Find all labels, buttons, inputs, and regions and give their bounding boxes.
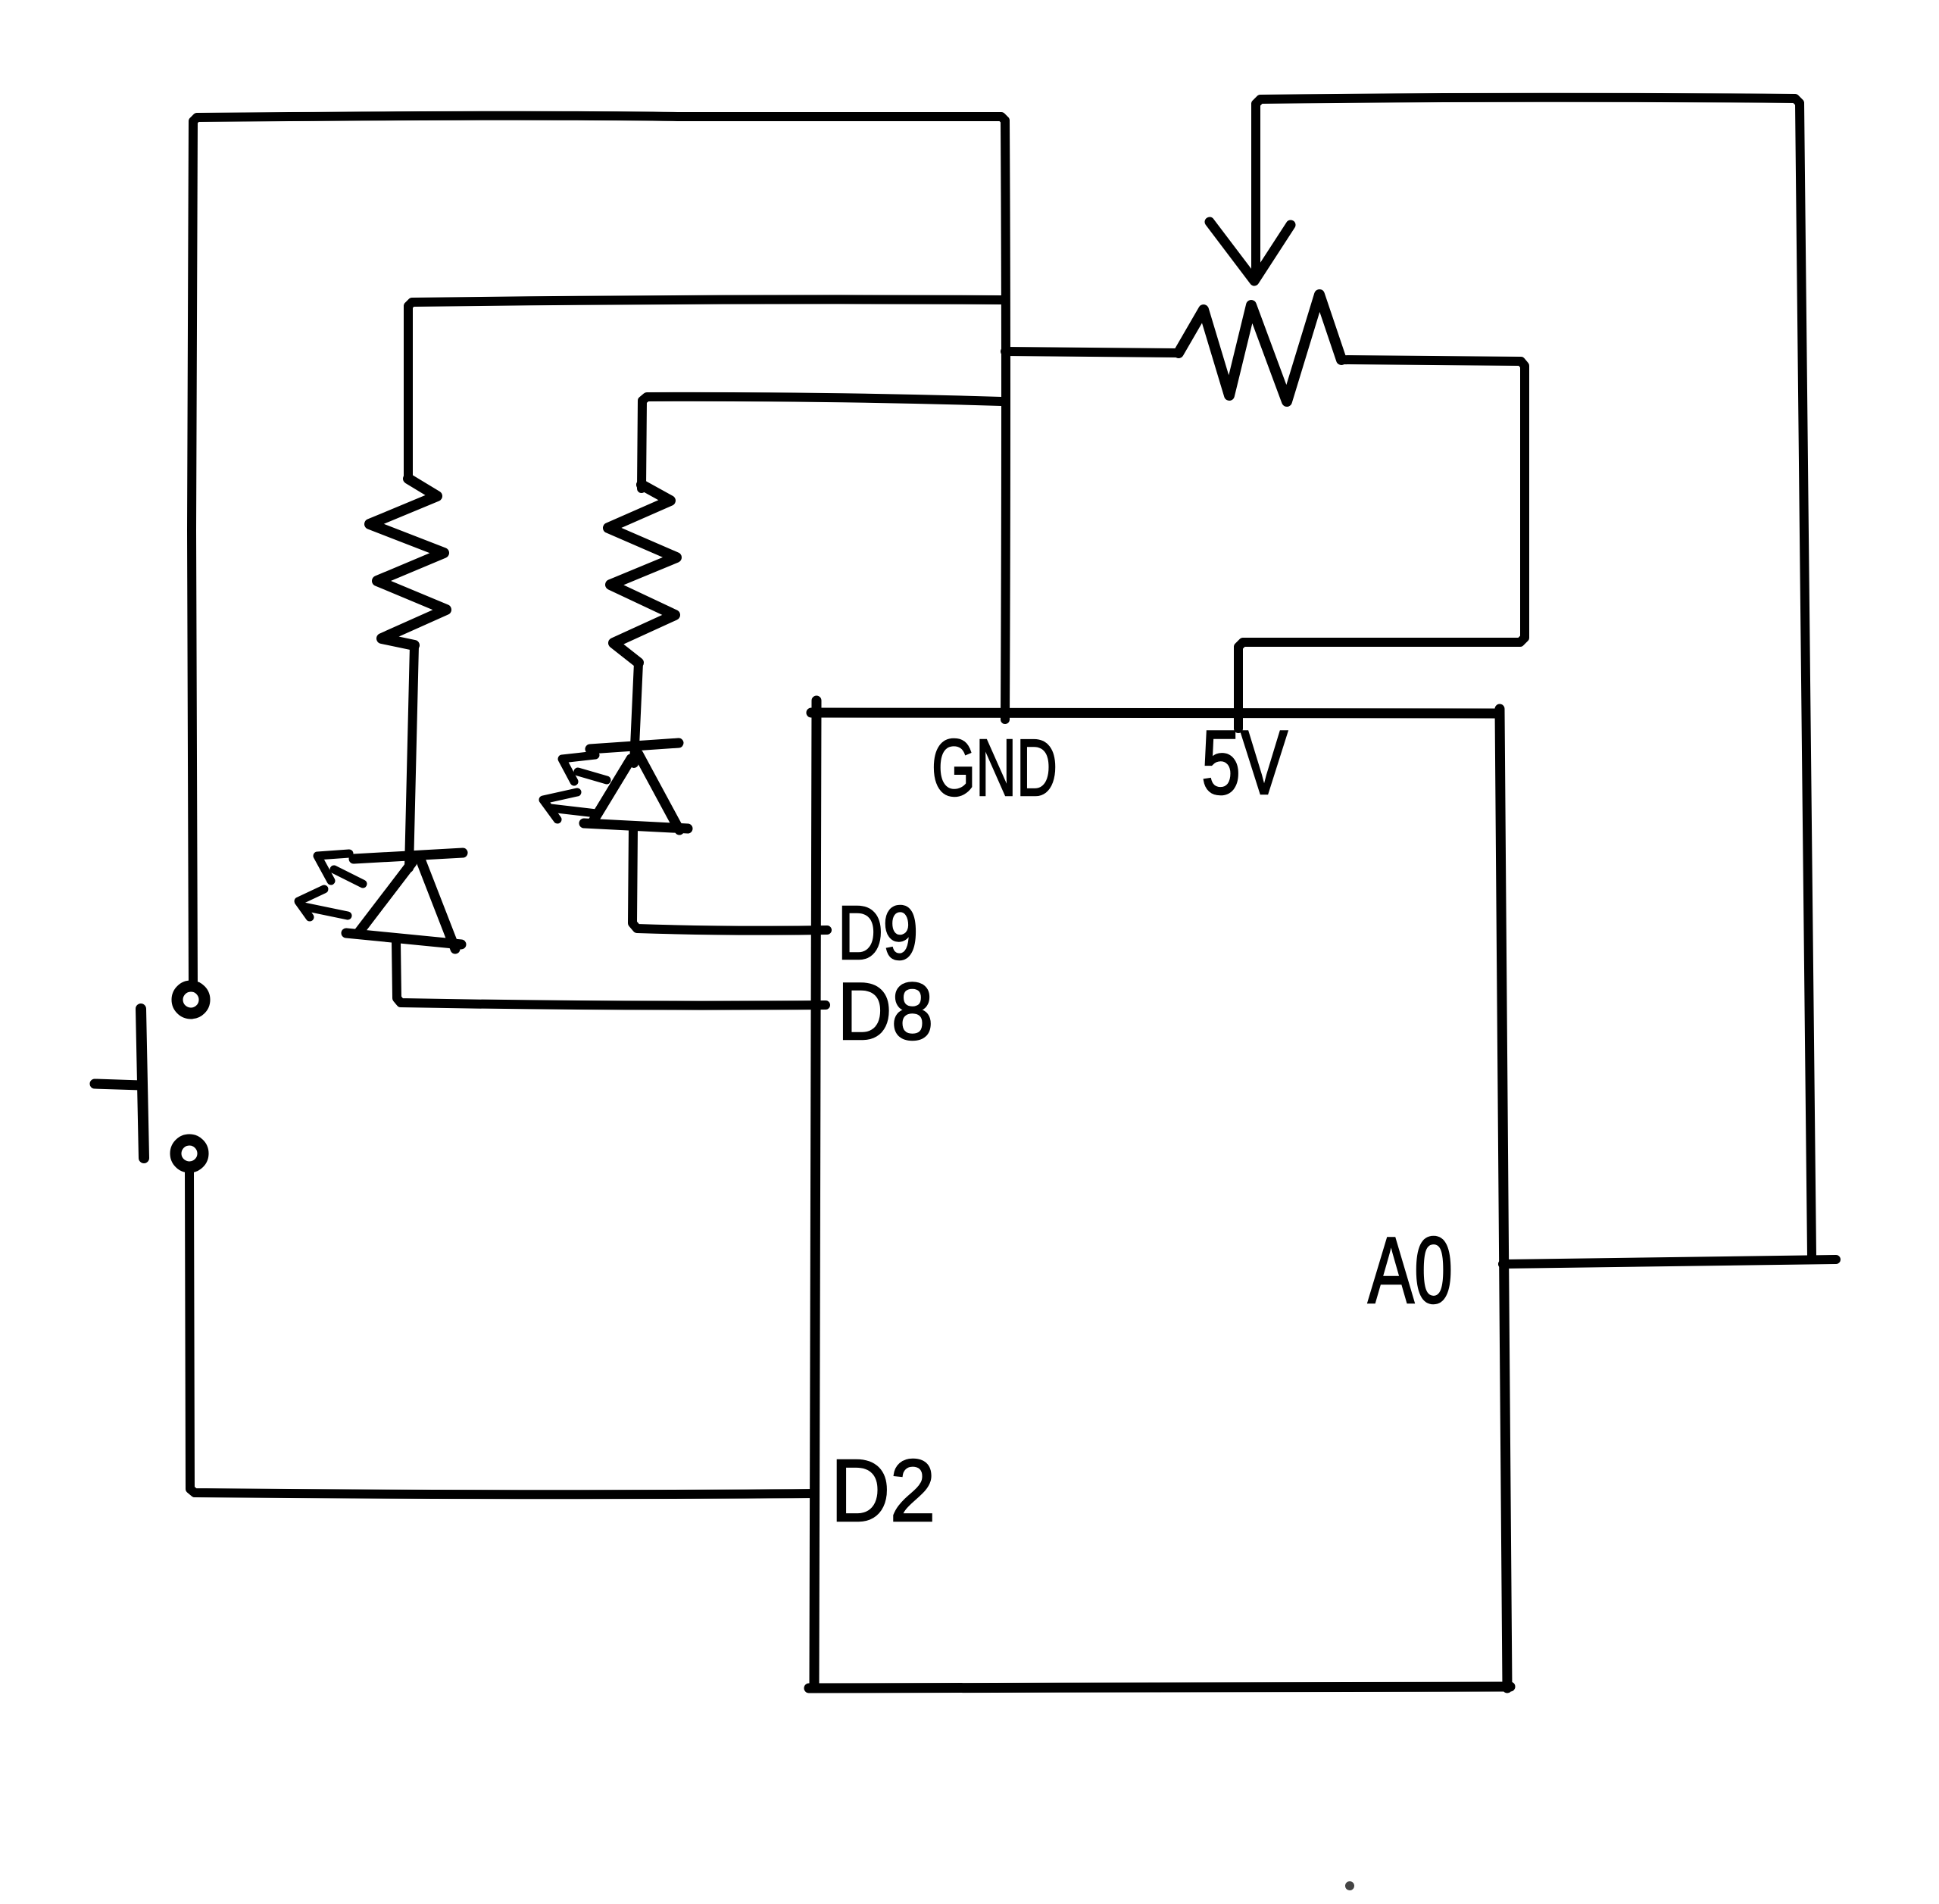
LED LED1 light arrow lower	[298, 889, 348, 917]
wire: R1 bottom lead to LED1 anode	[409, 645, 414, 868]
Arduino board U1 bottom edge	[809, 1687, 1510, 1688]
potentiometer wiper arrowhead	[1210, 222, 1291, 281]
svg-text:D9: D9	[838, 891, 918, 975]
wire: potentiometer right lead down and left to 5V pin	[1238, 360, 1525, 729]
wire: LED2 cathode down and right to D9 pin	[632, 829, 827, 931]
svg-text:A0: A0	[1368, 1219, 1453, 1323]
Arduino board U1 right edge	[1500, 709, 1507, 1688]
svg-text:D2: D2	[831, 1441, 935, 1540]
wire: wiper arrow up over top right and down tall wire to A0 net	[1256, 98, 1812, 1256]
wire: resistor R2 top to GND net vertical	[642, 397, 1001, 488]
Arduino board U1 top edge	[811, 713, 1500, 713]
LED LED1 triangle left side	[358, 863, 412, 933]
resistor R1	[370, 479, 446, 645]
resistor R2	[608, 485, 676, 663]
svg-text:5V: 5V	[1201, 712, 1288, 813]
wire: LED1 cathode down and right to D8 pin	[396, 941, 826, 1006]
LED LED1 triangle right side	[420, 857, 455, 949]
push button SW1 top contact	[177, 986, 205, 1013]
wire: R2 bottom lead to LED2 anode	[634, 663, 639, 763]
wire: push button top contact up and over to GND pin	[192, 116, 1006, 987]
LED LED2 light arrow lower	[543, 792, 596, 819]
push button SW1 bottom contact	[176, 1140, 203, 1167]
LED LED2 light arrow upper	[562, 755, 607, 782]
push button SW1 stem	[95, 1084, 141, 1085]
LED LED2 triangle right side	[639, 754, 679, 830]
wire: A0 pin to tall wire	[1503, 1259, 1836, 1264]
potentiometer R1 body zigzag	[1179, 295, 1341, 401]
LED LED1 cathode bar	[354, 853, 463, 859]
LED LED1 triangle base	[346, 933, 461, 944]
push button SW1 actuator bar	[141, 1009, 144, 1158]
wire: push button bottom contact down and right to D2 pin	[189, 1170, 815, 1494]
LED LED2 triangle left side	[592, 759, 631, 822]
svg-text:GND: GND	[932, 723, 1057, 813]
Arduino board U1 left edge	[814, 701, 817, 1688]
svg-text:D8: D8	[838, 966, 933, 1057]
stray ink dot	[1345, 1881, 1354, 1890]
LED LED2 cathode bar	[590, 743, 679, 749]
LED LED2 triangle base	[584, 823, 688, 829]
wire: GND net vertical to potentiometer left lead	[1005, 351, 1179, 353]
wire: resistor R1 top to GND net vertical	[408, 299, 1001, 479]
LED LED1 light arrow upper	[317, 854, 363, 884]
